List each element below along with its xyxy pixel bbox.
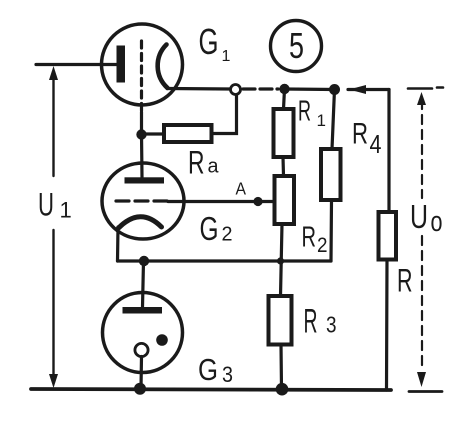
wire right vertical xyxy=(387,90,390,213)
svg-text:3: 3 xyxy=(326,312,337,338)
resistor R3 xyxy=(269,296,292,345)
tube G1 grid (dashed) xyxy=(140,41,143,112)
svg-text:5: 5 xyxy=(289,25,304,66)
svg-text:U: U xyxy=(38,186,54,222)
svg-text:G: G xyxy=(200,210,219,247)
resistor R1 xyxy=(274,109,294,157)
svg-text:A: A xyxy=(236,178,247,198)
svg-text:R: R xyxy=(304,303,318,341)
wire R4 top xyxy=(332,90,335,150)
wire G1 cathode to terminal xyxy=(168,87,230,91)
svg-text:1: 1 xyxy=(317,111,326,130)
node junction R4 top xyxy=(329,84,340,95)
figure number circle 5 xyxy=(271,21,322,72)
svg-text:U: U xyxy=(410,198,428,235)
svg-text:G: G xyxy=(198,352,218,387)
svg-text:R: R xyxy=(397,263,413,299)
wire R3 to bus xyxy=(279,345,283,390)
wire R2 to R3 xyxy=(281,224,283,296)
label R3 xyxy=(304,303,337,341)
resistor R4 xyxy=(321,149,341,200)
wire dashed to R1 node xyxy=(243,87,278,90)
label u0 xyxy=(410,198,443,238)
wire node to G2 anode xyxy=(140,134,144,177)
wire node to G3 anode xyxy=(143,261,144,307)
node grid G1 / Ra xyxy=(136,129,146,139)
wire cathode bus horizontal xyxy=(118,259,332,262)
svg-text:R: R xyxy=(188,145,205,181)
wire node to Ra xyxy=(142,132,165,135)
tube G1 cathode arc xyxy=(158,45,168,89)
label u1 xyxy=(38,186,72,222)
wire top rail xyxy=(285,87,335,91)
tube G3 anode bar xyxy=(123,307,163,314)
tube G2 anode bar xyxy=(125,177,165,183)
svg-text:a: a xyxy=(208,156,220,178)
tube G1 envelope xyxy=(102,24,183,105)
svg-text:R: R xyxy=(302,222,317,254)
tube G1 anode bar xyxy=(117,46,126,83)
terminal (open circle) xyxy=(231,85,241,95)
svg-text:o: o xyxy=(431,206,443,238)
dimension line u1 xyxy=(49,66,58,388)
node A junction xyxy=(253,197,262,206)
node cathode junction xyxy=(139,256,149,266)
label G1 xyxy=(199,21,231,65)
wire ground bus xyxy=(31,389,391,390)
wire G2 grid to node A and R2 xyxy=(168,200,275,203)
wire G1 grid to node xyxy=(140,112,143,136)
tube G2 grid (dashed) xyxy=(116,199,170,202)
wire Ra to terminal xyxy=(212,95,237,134)
wire G3 cathode to bus xyxy=(139,357,143,390)
tube G3 dot electrode xyxy=(156,334,168,346)
svg-text:4: 4 xyxy=(370,129,382,159)
resistor R xyxy=(379,212,397,260)
dimension line u0 xyxy=(408,88,443,392)
svg-text:G: G xyxy=(199,21,219,62)
tube G3 cathode (open circle) xyxy=(135,343,148,356)
node R2/R3 junction xyxy=(277,257,284,264)
svg-text:R: R xyxy=(352,118,368,151)
node bus R3 xyxy=(276,383,289,396)
tube G2 envelope xyxy=(102,163,184,239)
svg-text:2: 2 xyxy=(317,234,328,257)
svg-text:1: 1 xyxy=(222,48,231,65)
resistor Ra xyxy=(164,125,212,142)
label R2 xyxy=(302,222,328,257)
svg-text:1: 1 xyxy=(60,198,72,223)
wire R1 top xyxy=(284,89,285,109)
label R4 xyxy=(352,118,382,159)
wire top rail right with arrow xyxy=(348,85,389,94)
wire R1 to R2 xyxy=(281,157,285,176)
node bus G3 xyxy=(134,383,146,395)
resistor R2 xyxy=(275,176,295,224)
wire R to bus xyxy=(385,260,389,391)
label Ra xyxy=(188,145,219,181)
svg-text:2: 2 xyxy=(222,224,233,246)
wire G2 cathode down xyxy=(116,227,120,261)
wire R4 to cathode bus xyxy=(329,200,333,261)
label G2 xyxy=(200,210,233,247)
label G3 xyxy=(198,352,233,387)
label R1 xyxy=(298,96,326,131)
wire input top-left xyxy=(36,63,119,66)
node junction R1 top xyxy=(279,84,289,94)
svg-text:3: 3 xyxy=(222,362,233,387)
svg-text:R: R xyxy=(298,96,311,128)
tube G2 cathode arc xyxy=(119,217,162,228)
tube G3 envelope xyxy=(103,293,183,373)
